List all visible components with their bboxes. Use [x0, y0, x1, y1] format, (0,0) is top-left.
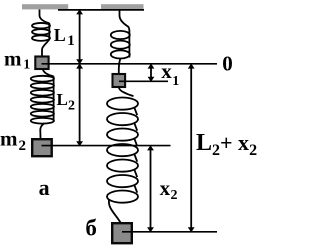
svg-text:L: L [54, 25, 66, 45]
bottom reference line [122, 231, 217, 233]
svg-text:m: m [4, 46, 22, 70]
svg-text:L: L [57, 90, 68, 109]
spring b upper top hook [120, 10, 130, 32]
ceiling support bar left [22, 4, 68, 9]
svg-text:x: x [160, 176, 171, 200]
mass b1 small square [113, 74, 126, 87]
spring a upper (L1) bottom tail [42, 40, 49, 57]
spring a upper (L1) top hook [40, 10, 50, 24]
ceiling reference line [58, 9, 144, 11]
spring b lower big coils [107, 98, 138, 110]
spring b lower top tail [119, 88, 134, 97]
svg-text:2: 2 [68, 98, 75, 113]
svg-text:1: 1 [172, 74, 179, 89]
svg-text:m: m [0, 127, 18, 151]
x2 dimension arrow [147, 145, 154, 232]
x1 lower reference line [119, 80, 168, 82]
spring b lower bottom tail [109, 200, 121, 223]
spring a lower (L2) coils [31, 76, 54, 82]
level 0 reference line [42, 63, 218, 65]
svg-text:2: 2 [171, 188, 178, 203]
svg-text:а: а [39, 175, 50, 200]
ceiling support bar right [101, 4, 144, 9]
spring a lower (L2) top tail [43, 70, 54, 77]
svg-text:1: 1 [23, 57, 30, 72]
svg-text:0: 0 [222, 51, 233, 75]
spring b upper coils [111, 31, 130, 39]
svg-text:x: x [161, 59, 172, 83]
svg-text:1: 1 [67, 33, 75, 49]
svg-text:2: 2 [19, 138, 27, 154]
svg-text:б: б [85, 215, 97, 240]
mass m2 square [32, 139, 52, 156]
L1 dimension arrow [76, 9, 83, 64]
spring b upper bottom tail [119, 59, 121, 75]
m2 level reference line [42, 145, 171, 147]
spring a upper (L1) coils [32, 23, 50, 29]
svg-text:L2+ x2: L2+ x2 [196, 130, 257, 159]
x1 dimension arrow [148, 63, 155, 82]
L2 dimension arrow [76, 63, 83, 146]
spring a lower (L2) bottom tail [40, 123, 44, 139]
L2+x2 dimension arrow [188, 63, 195, 232]
mass b2 bottom square [112, 223, 132, 243]
mass m1 square [35, 57, 48, 70]
